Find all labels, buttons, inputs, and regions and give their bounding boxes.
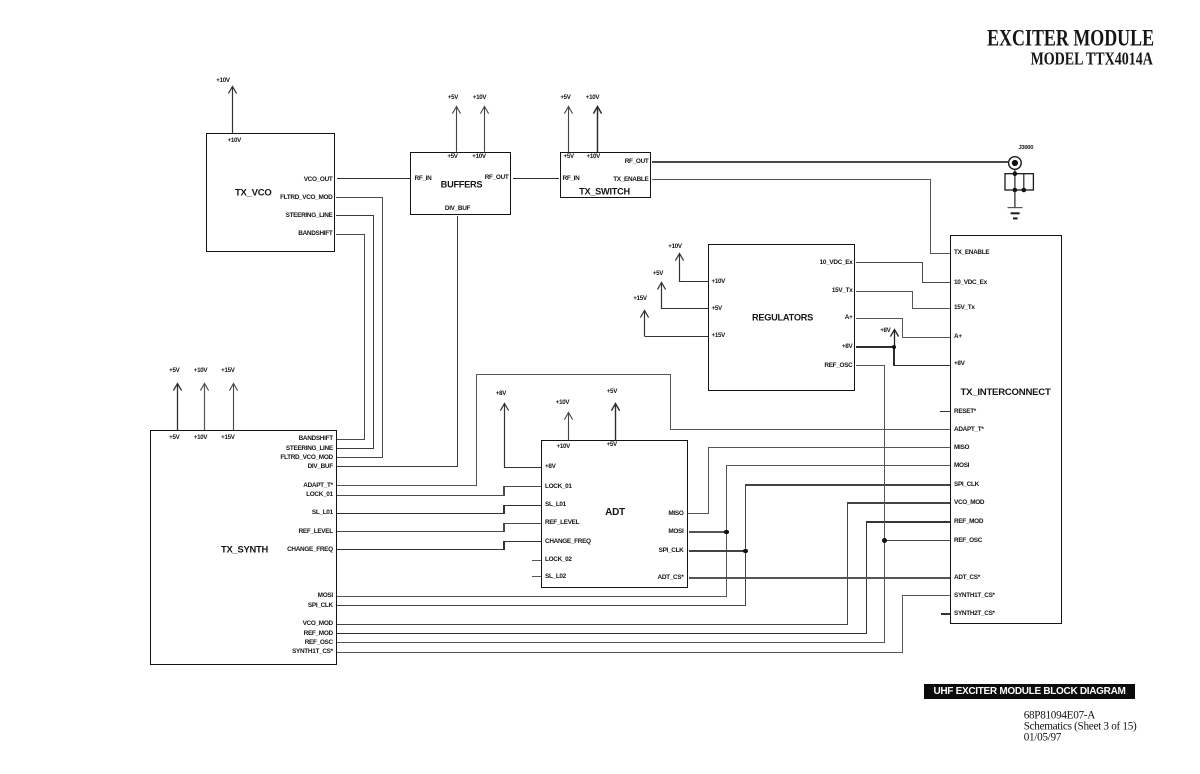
wire DIV_BUF: [457, 216, 458, 467]
pin label +10V inside TX_VCO: [228, 137, 241, 143]
wire +10V into REGULATORS: [679, 281, 708, 282]
pin label CHANGE_FREQ TX_SYNTH: [287, 547, 333, 553]
pin label REF_LEVEL ADT: [545, 520, 579, 526]
label +5V above ADT: [607, 388, 617, 394]
pin label ADAPT_T* TX_SYNTH: [303, 482, 333, 488]
pin label RF_IN BUFFERS: [415, 175, 432, 181]
label +15V above TX_SYNTH: [221, 368, 234, 374]
wire RF_OUT TX_SWITCH to J3000: [652, 161, 1008, 162]
label +10V left of REGULATORS: [668, 243, 681, 249]
wire +15V into REGULATORS: [645, 336, 708, 337]
label +5V above TX_SWITCH: [560, 95, 570, 101]
wire REF_OSC branch: [885, 540, 950, 541]
block TX_SWITCH: [560, 152, 651, 198]
wire ADT_CS*: [689, 577, 950, 578]
pin label ADT_CS* TX_INTERCONNECT: [954, 575, 980, 581]
label +8V left of ADT: [496, 390, 506, 396]
pin label BANDSHIFT TX_SYNTH: [299, 436, 333, 442]
power arrow +5V left of REGULATORS: [656, 281, 667, 309]
pin label BANDSHIFT: [298, 231, 332, 237]
wire CHANGE_FREQ: [336, 549, 505, 550]
wire A+: [856, 318, 903, 319]
pin label +5V inside TX_SWITCH: [564, 154, 574, 160]
block TX_VCO: [206, 133, 335, 252]
stub SYNTH2T_CS*: [941, 613, 950, 614]
pin label DIV_BUF TX_SYNTH: [308, 464, 333, 470]
wire VCO_MOD: [336, 624, 848, 625]
wire MOSI branch to ADT: [689, 531, 726, 532]
power arrow +8V left of ADT: [499, 402, 510, 468]
title ADT: [605, 508, 625, 518]
power arrow +5V above TX_SYNTH: [172, 382, 183, 431]
stub RESET*: [940, 411, 950, 412]
doc sheet info: [1024, 721, 1137, 732]
pin label 15V_Tx TX_INTERCONNECT: [954, 305, 975, 311]
pin label REF_MOD TX_SYNTH: [304, 630, 333, 636]
stub SL_L02: [532, 576, 542, 577]
pin label SPI_CLK TX_SYNTH: [308, 603, 333, 609]
pin label LOCK_01 TX_SYNTH: [306, 492, 333, 498]
pin label VCO_OUT: [304, 176, 333, 182]
label +10V above ADT: [556, 400, 569, 406]
label +8V near TX_INTERCONNECT: [880, 327, 890, 333]
pin label +10V REGULATORS: [712, 279, 725, 285]
pin label REF_LEVEL TX_SYNTH: [299, 528, 333, 534]
wire +8V: [856, 346, 895, 347]
label text UHF EXCITER MODULE BLOCK DIAGRAM: [933, 687, 1125, 697]
wire 15V_Tx: [856, 291, 913, 292]
pin label +5V inside BUFFERS: [447, 154, 457, 160]
pin label +8V TX_INTERCONNECT: [954, 361, 965, 367]
junction MOSI: [724, 530, 729, 535]
pin label LOCK_01 ADT: [545, 484, 572, 490]
pin label STEERING_LINE: [286, 212, 333, 218]
wire MISO: [688, 513, 709, 514]
pin label SPI_CLK ADT: [659, 548, 684, 554]
power arrow +5V above BUFFERS: [451, 105, 462, 152]
pin label FLTRD_VCO_MOD: [280, 195, 332, 201]
ground symbol below J3000: [1005, 206, 1025, 221]
wire REF_OSC trunk: [856, 365, 885, 366]
wire REF_MOD: [336, 633, 867, 634]
wire TX_ENABLE: [652, 179, 931, 180]
power arrow +10V above TX_VCO: [227, 85, 238, 134]
pin label REF_MOD TX_INTERCONNECT: [954, 519, 983, 525]
power arrow +10V above TX_SYNTH: [199, 382, 210, 431]
label +10V above TX_SYNTH: [194, 368, 207, 374]
pin label RF_OUT TX_SWITCH: [625, 158, 649, 164]
pin label MOSI ADT: [668, 529, 683, 535]
stub LOCK_02: [532, 560, 542, 561]
pin label DIV_BUF: [445, 205, 470, 211]
wire SPI_CLK branch to ADT: [689, 550, 745, 551]
power arrow +15V above TX_SYNTH: [228, 382, 239, 431]
wire REF_LEVEL: [336, 531, 504, 532]
pin label 10_VDC_Ex REGULATORS: [820, 259, 853, 265]
block REGULATORS: [708, 244, 855, 390]
title TX_INTERCONNECT: [961, 389, 1051, 399]
title TX_VCO: [235, 188, 272, 198]
power arrow +10V above TX_SWITCH: [592, 105, 603, 153]
pin label FLTRD_VCO_MOD TX_SYNTH: [280, 455, 332, 461]
wire FLTRD_VCO_MOD: [336, 197, 383, 198]
pin label A+ TX_INTERCONNECT: [954, 334, 962, 340]
pin label CHANGE_FREQ ADT: [545, 538, 591, 544]
pin label +5V inside ADT: [607, 442, 617, 448]
pin label MOSI TX_INTERCONNECT: [954, 462, 969, 468]
junction SPI_CLK: [743, 549, 748, 554]
power arrow +10V above ADT: [563, 411, 574, 441]
wire VCO_OUT TX_VCO to BUFFERS: [337, 178, 411, 180]
block TX_SYNTH: [150, 430, 336, 665]
power arrow +10V above BUFFERS: [479, 105, 490, 152]
wire BANDSHIFT: [336, 234, 365, 235]
pin label +5V REGULATORS: [712, 306, 722, 312]
pin label 15V_Tx REGULATORS: [832, 288, 853, 294]
pin label SPI_CLK TX_INTERCONNECT: [954, 482, 979, 488]
label +5V left of REGULATORS: [653, 271, 663, 277]
title EXCITER MODULE: [987, 27, 1154, 50]
power arrow +8V near TX_INTERCONNECT: [889, 328, 900, 348]
label +10V above BUFFERS: [473, 95, 486, 101]
wire +5V into REGULATORS: [662, 308, 708, 309]
pin label REF_OSC TX_SYNTH: [305, 640, 333, 646]
pin label LOCK_02 ADT: [545, 557, 572, 563]
pin label SL_L02 ADT: [545, 574, 566, 580]
pin label +5V inside TX_SYNTH: [169, 435, 179, 441]
wire +8V into ADT: [504, 467, 541, 468]
doc date 01/05/97: [1024, 733, 1061, 744]
power arrow +10V left of REGULATORS: [674, 252, 685, 282]
pin label +8V REGULATORS: [842, 344, 853, 350]
pin label A+ REGULATORS: [845, 315, 853, 321]
pin label ADT_CS* ADT: [658, 575, 684, 581]
pin label TX_ENABLE TX_SWITCH: [613, 177, 648, 183]
wire 10_VDC_Ex: [856, 262, 923, 263]
connector J3000 coax jack: [1000, 140, 1045, 225]
pin label REF_OSC REGULATORS: [824, 363, 852, 369]
title TX_SYNTH: [221, 544, 268, 553]
label J3000: [1019, 146, 1034, 152]
pin label +10V inside TX_SYNTH: [194, 435, 207, 441]
wire ADAPT_T*: [336, 485, 477, 486]
wire STEERING_LINE: [336, 215, 374, 216]
pin label SYNTH1T_CS* TX_SYNTH: [292, 649, 333, 655]
pin label +10V inside BUFFERS: [472, 154, 485, 160]
label +10V above TX_VCO: [216, 77, 229, 83]
wire LOCK_01: [336, 495, 504, 496]
junction REF_OSC: [882, 538, 887, 543]
power arrow +5V above TX_SWITCH: [563, 105, 574, 153]
pin label SYNTH1T_CS* TX_INTERCONNECT: [954, 592, 995, 598]
pin label RF_OUT BUFFERS: [485, 175, 509, 181]
pin label +10V inside ADT: [557, 444, 570, 450]
label +10V above TX_SWITCH: [586, 95, 599, 101]
pin label MISO TX_INTERCONNECT: [954, 444, 969, 450]
label +5V above TX_SYNTH: [169, 368, 179, 374]
block ADT: [541, 440, 688, 589]
pin label ADAPT_T* TX_INTERCONNECT: [954, 426, 984, 432]
subtitle MODEL TTX4014A: [1031, 50, 1153, 68]
pin label RESET* TX_INTERCONNECT: [954, 408, 976, 414]
pin label 10_VDC_Ex TX_INTERCONNECT: [954, 279, 987, 285]
pin label +15V inside TX_SYNTH: [221, 435, 234, 441]
wire SL_L01: [336, 513, 505, 514]
block TX_INTERCONNECT: [950, 235, 1062, 624]
pin label +15V REGULATORS: [712, 333, 725, 339]
wire SPI_CLK: [336, 605, 746, 606]
pin label RF_IN TX_SWITCH: [563, 176, 580, 182]
wire SYNTH1T_CS*: [336, 652, 903, 653]
block BUFFERS: [410, 152, 511, 216]
junction +8V: [892, 345, 897, 350]
pin label MISO ADT: [668, 510, 683, 516]
pin label +8V ADT: [545, 464, 556, 470]
power arrow +15V left of REGULATORS: [639, 309, 650, 337]
pin label +10V inside TX_SWITCH: [587, 154, 600, 160]
label +5V above BUFFERS: [448, 95, 458, 101]
power arrow +5V above ADT: [610, 402, 621, 441]
pin label SL_L01 ADT: [545, 502, 566, 508]
wire MOSI: [336, 596, 727, 597]
label +15V left of REGULATORS: [633, 296, 646, 302]
pin label VCO_MOD TX_INTERCONNECT: [954, 500, 984, 506]
pin label TX_ENABLE TX_INTERCONNECT: [954, 250, 989, 256]
pin label SYNTH2T_CS* TX_INTERCONNECT: [954, 611, 995, 617]
pin label STEERING_LINE TX_SYNTH: [286, 445, 333, 451]
pin label SL_L01 TX_SYNTH: [312, 510, 333, 516]
label bar UHF EXCITER MODULE BLOCK DIAGRAM: [924, 684, 1135, 699]
pin label VCO_MOD TX_SYNTH: [303, 621, 333, 627]
pin label MOSI TX_SYNTH: [318, 593, 333, 599]
doc number 68P81094E07-A: [1024, 710, 1095, 721]
title BUFFERS: [441, 180, 483, 189]
title TX_SWITCH: [579, 187, 630, 196]
pin label REF_OSC TX_INTERCONNECT: [954, 537, 982, 543]
wire RF_OUT BUFFERS to TX_SWITCH: [513, 178, 560, 180]
title REGULATORS: [752, 313, 813, 322]
